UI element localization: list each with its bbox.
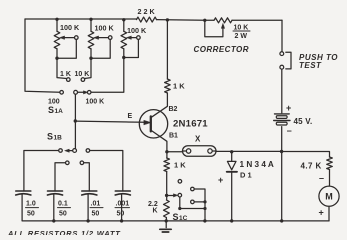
svg-text:B1: B1 (169, 133, 178, 140)
svg-text:X: X (195, 135, 201, 144)
svg-text:CORRECTOR: CORRECTOR (194, 45, 249, 54)
svg-text:1.0: 1.0 (26, 201, 36, 208)
svg-text:2 2 K: 2 2 K (138, 7, 156, 16)
svg-text:–: – (319, 173, 324, 183)
svg-text:B2: B2 (169, 106, 178, 113)
svg-text:10 K: 10 K (75, 71, 90, 78)
svg-text:1B: 1B (54, 135, 63, 142)
svg-text:K: K (153, 208, 158, 215)
svg-text:100 K: 100 K (60, 23, 80, 32)
svg-text:100 K: 100 K (127, 26, 147, 35)
svg-text:1A: 1A (55, 108, 64, 115)
svg-text:+: + (218, 175, 223, 185)
svg-text:50: 50 (59, 211, 67, 218)
svg-text:50: 50 (117, 211, 125, 218)
svg-text:ALL RESISTORS 1/2 WATT: ALL RESISTORS 1/2 WATT (7, 229, 121, 235)
svg-text:0.1: 0.1 (58, 201, 68, 208)
svg-text:50: 50 (27, 211, 35, 218)
svg-text:1 K: 1 K (173, 82, 185, 91)
svg-text:100 K: 100 K (95, 24, 115, 33)
svg-text:1 K: 1 K (174, 161, 186, 170)
svg-text:TEST: TEST (299, 61, 322, 70)
svg-text:10 K: 10 K (234, 25, 249, 32)
svg-text:45 V.: 45 V. (294, 117, 313, 126)
svg-text:1 N 3 4 A: 1 N 3 4 A (240, 160, 274, 169)
svg-text:.01: .01 (91, 201, 101, 208)
svg-text:2N1671: 2N1671 (173, 118, 208, 129)
svg-text:.001: .001 (116, 201, 130, 208)
svg-text:S: S (173, 212, 179, 222)
svg-text:+: + (286, 103, 291, 113)
svg-text:+: + (319, 208, 324, 218)
svg-text:50: 50 (92, 211, 100, 218)
svg-text:E: E (128, 113, 133, 120)
svg-text:1C: 1C (179, 215, 188, 222)
svg-text:1 K: 1 K (60, 71, 71, 78)
svg-text:2 W: 2 W (235, 33, 248, 40)
svg-text:M: M (325, 192, 333, 202)
svg-text:D 1: D 1 (240, 171, 252, 180)
svg-text:S: S (47, 132, 53, 142)
svg-text:–: – (287, 126, 292, 136)
svg-text:100 K: 100 K (86, 99, 105, 106)
svg-text:S: S (48, 105, 54, 115)
svg-text:4.7 K: 4.7 K (301, 162, 322, 171)
